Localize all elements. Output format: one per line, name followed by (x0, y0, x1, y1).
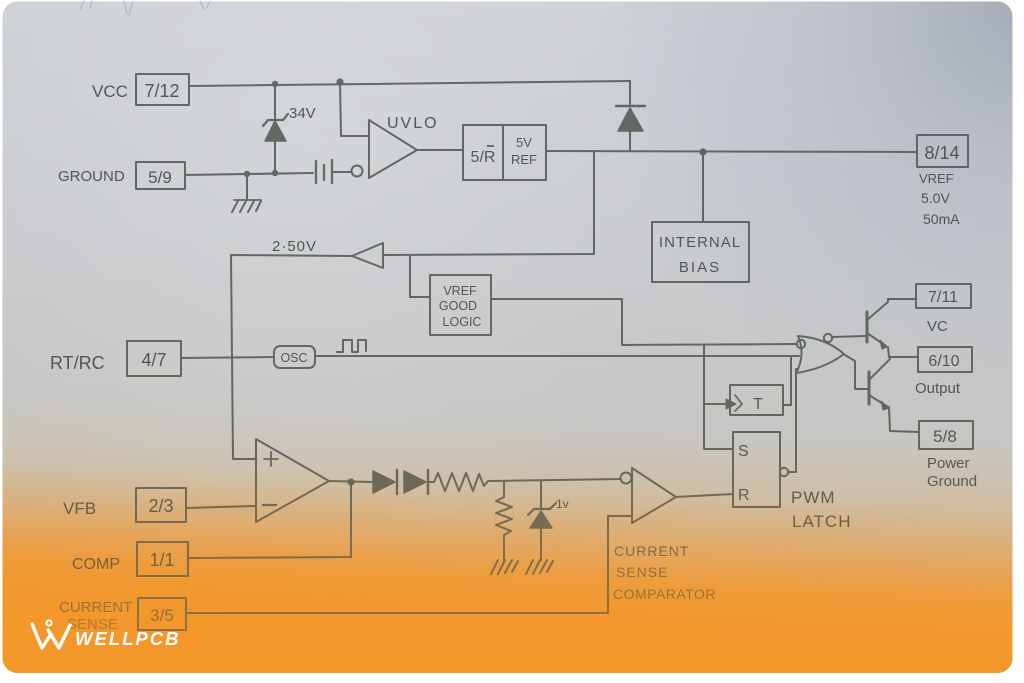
wire COMP feedback to output node (188, 482, 351, 558)
buffer amplifier 2.50V (points left) (352, 243, 383, 268)
pin box COMP 1/1 (137, 542, 188, 576)
wire VREF rail down to 2.50V buffer line (383, 151, 594, 255)
wire OSC output long rail (line B) (315, 355, 799, 357)
zener diode 1V (540, 481, 542, 509)
svg-text:INTERNAL: INTERNAL (659, 234, 741, 251)
wire OR output to Q2 base (845, 355, 869, 389)
wire 2.50V line to error amp + input (231, 255, 352, 459)
diode D1 to VCC rail (629, 81, 631, 104)
wire line B down to T flip-flop output side (783, 356, 791, 405)
svg-text:7/12: 7/12 (144, 81, 179, 101)
oscillator block OSC (274, 346, 315, 368)
svg-text:8/14: 8/14 (924, 143, 959, 163)
block INTERNAL BIAS (652, 222, 749, 282)
wire VFB to error amp - input (186, 506, 256, 508)
svg-text:REF: REF (511, 152, 537, 167)
op-amp U1 UVLO comparator (352, 166, 363, 177)
svg-text:T: T (753, 396, 763, 413)
diode D2 (373, 471, 395, 493)
node junction error amp output (347, 478, 354, 485)
svg-text:BIAS: BIAS (679, 259, 721, 276)
wire line A/B tap down to latch S input (704, 345, 733, 449)
svg-text:VC: VC (927, 318, 948, 335)
op-amp current sense comparator (621, 473, 632, 484)
ground symbol under zener (526, 560, 553, 574)
clock waveform symbol (337, 340, 366, 352)
ground symbol under GROUND rail (246, 175, 248, 200)
wire VREF GOOD LOGIC output to OR gate (line A) (491, 299, 796, 345)
resistor R2 (to ground) (496, 481, 512, 560)
WELLPCB watermark logo (32, 620, 180, 649)
node junction ground/zener (272, 170, 278, 176)
warm wash over ink in orange zone (3, 430, 1013, 673)
wire Q1 collector to pin 7/11 (888, 298, 916, 300)
wire current sense 3/5 to comparator + input (186, 516, 632, 613)
transistor Q2 (868, 372, 871, 404)
node junction VREF rail / internal bias (699, 148, 706, 155)
node junction on VCC rail above zener (272, 81, 278, 87)
svg-text:Output: Output (915, 380, 961, 397)
pin box 6/10 (918, 347, 972, 372)
wire UVLO output to 5V REF block (417, 149, 463, 151)
svg-text:5/9: 5/9 (148, 168, 172, 187)
block T flip-flop (730, 385, 783, 415)
op-amp error amplifier (256, 439, 329, 522)
svg-text:OSC: OSC (280, 351, 307, 365)
node junction on VCC rail to UVLO (336, 78, 343, 85)
wire internal bias stem (702, 152, 704, 222)
pin box 5/8 (919, 421, 973, 449)
wire output node to pin 6/10 (889, 356, 918, 358)
block 5/R 5V REF (463, 125, 546, 180)
svg-text:GROUND: GROUND (58, 168, 125, 185)
svg-text:5/R: 5/R (471, 149, 496, 166)
pin box CURRENT SENSE 3/5 (138, 598, 186, 630)
pin box RT/RC 4/7 (127, 341, 181, 376)
svg-text:5.0V: 5.0V (921, 190, 950, 206)
transistor Q1 (866, 312, 869, 342)
pin box 7/11 (916, 284, 971, 308)
svg-text:LOGIC: LOGIC (443, 315, 482, 329)
svg-text:UVLO: UVLO (387, 115, 439, 132)
svg-text:34V: 34V (289, 105, 316, 122)
latch S-R PWM latch box (733, 432, 780, 507)
svg-text:2·50V: 2·50V (272, 238, 317, 255)
svg-text:VREF: VREF (919, 171, 954, 186)
pin box VFB 2/3 (136, 488, 186, 522)
svg-text:VREF: VREF (443, 284, 477, 298)
stray pencil marks top edge (80, 1, 210, 15)
svg-text:4/7: 4/7 (141, 350, 166, 370)
pin box GROUND 5/9 (136, 162, 185, 189)
svg-text:WELLPCB: WELLPCB (75, 628, 180, 649)
wire OR top bubble to Q1 base (832, 336, 866, 337)
pin box VCC 7/12 (136, 74, 189, 105)
svg-text:VCC: VCC (92, 82, 128, 101)
wire 5V REF output rail to pin 8/14 (546, 151, 917, 152)
node tap to VREF GOOD LOGIC (410, 256, 430, 297)
wire GROUND rail (185, 173, 313, 175)
diode D3 (404, 471, 426, 493)
svg-text:5V: 5V (516, 135, 532, 150)
ground symbol under R2 (491, 560, 518, 574)
svg-text:50mA: 50mA (923, 211, 960, 227)
OR gate input bubble (797, 340, 805, 348)
resistor R1 (series) (428, 473, 488, 491)
svg-text:6/10: 6/10 (928, 353, 959, 370)
wire RT/RC to OSC (181, 357, 274, 358)
svg-text:RT/RC: RT/RC (50, 353, 105, 373)
svg-text:7/11: 7/11 (928, 289, 958, 306)
wire comparator output to latch R (676, 494, 733, 497)
OR gate U2 (796, 336, 844, 373)
node junction ground/gnd-symbol (244, 171, 250, 177)
zener diode 34V body (274, 84, 276, 120)
wire T input with arrowhead (704, 403, 725, 405)
wire VCC to UVLO input (340, 82, 369, 136)
wire resistor to comparator (488, 479, 621, 481)
pin box 8/14 (917, 135, 968, 167)
wire VCC rail (189, 81, 630, 86)
OR gate top output bubble (824, 334, 832, 342)
latch output bubble and wire to OR gate (780, 468, 788, 476)
wire error amp output (329, 481, 373, 482)
svg-text:GOOD: GOOD (439, 299, 477, 313)
capacitor at UVLO inverting input (316, 160, 332, 183)
block VREF GOOD LOGIC (430, 275, 491, 335)
